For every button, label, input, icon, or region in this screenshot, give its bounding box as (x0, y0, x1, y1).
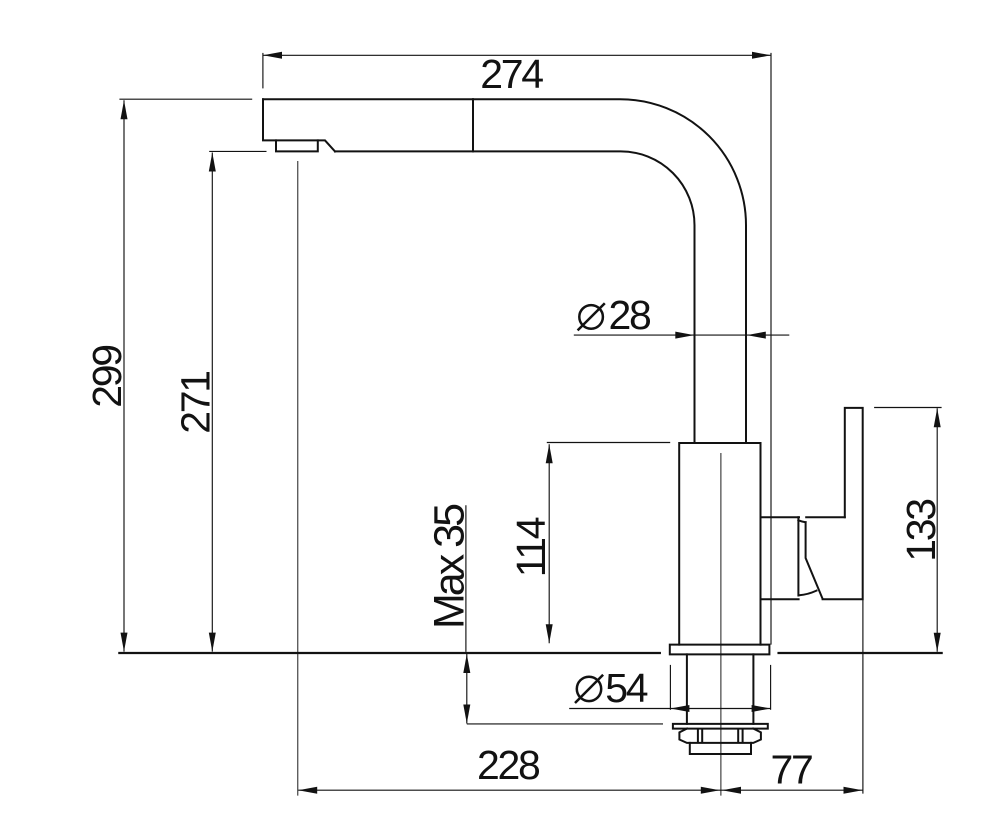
svg-text:114: 114 (508, 517, 554, 577)
svg-text:133: 133 (898, 500, 944, 562)
svg-text:274: 274 (480, 51, 543, 97)
svg-text:28: 28 (609, 292, 652, 338)
svg-text:271: 271 (173, 372, 219, 434)
svg-text:299: 299 (84, 346, 130, 408)
svg-text:54: 54 (605, 665, 648, 711)
svg-text:77: 77 (770, 747, 812, 793)
svg-text:Max 35: Max 35 (426, 504, 474, 629)
svg-text:228: 228 (477, 742, 540, 788)
